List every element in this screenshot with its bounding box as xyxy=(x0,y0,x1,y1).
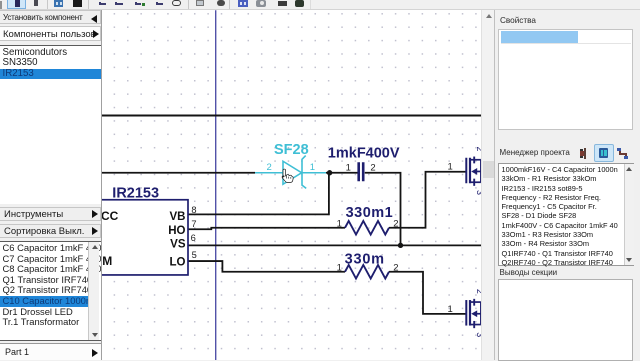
wire diode feed xyxy=(102,171,255,173)
svg-text:2: 2 xyxy=(393,218,398,229)
label Свойства xyxy=(500,16,536,25)
bar: Компоненты пользов xyxy=(0,26,101,42)
wire VS net xyxy=(188,244,481,246)
wire junction to capacitor xyxy=(326,171,358,173)
mouse cursor (hand) xyxy=(282,169,293,182)
R4 pin numbers xyxy=(337,262,399,273)
svg-text:330m: 330m xyxy=(345,251,385,267)
label Выводы секции xyxy=(500,268,558,277)
svg-text:7: 7 xyxy=(191,218,196,228)
node junction at diode-cap xyxy=(327,170,332,175)
icon 2 (selected) xyxy=(594,144,614,162)
canvas vertical scrollbar xyxy=(481,10,495,361)
diode D1 SF28 (selected, cyan) xyxy=(255,155,326,188)
upper list xyxy=(0,45,101,205)
lower list xyxy=(0,241,101,341)
IC pin names xyxy=(168,211,186,268)
IC left pin names (clipped) xyxy=(101,209,119,268)
svg-text:1: 1 xyxy=(310,161,315,172)
wire VB net xyxy=(188,172,329,214)
svg-text:1mkF400V: 1mkF400V xyxy=(328,145,400,161)
wire R3 to Q1 gate xyxy=(389,171,466,227)
cursor guide vertical line xyxy=(215,10,217,361)
wire R4 to Q2 gate xyxy=(389,271,466,313)
svg-text:330m1: 330m1 xyxy=(346,204,394,220)
R3 pin numbers xyxy=(337,218,399,229)
canvas xyxy=(102,10,481,361)
left panel xyxy=(0,10,102,361)
IC pin numbers xyxy=(191,204,197,259)
project manager list xyxy=(498,163,635,266)
svg-text:8: 8 xyxy=(191,204,196,214)
svg-text:2: 2 xyxy=(393,262,398,273)
IC U1 IR2153 body xyxy=(94,199,188,274)
svg-text:2: 2 xyxy=(267,161,272,172)
svg-text:VB: VB xyxy=(170,211,186,223)
icon 1 xyxy=(580,148,589,159)
svg-text:1: 1 xyxy=(448,303,453,314)
label Менеджер проекта xyxy=(500,148,570,157)
pm scrollbar xyxy=(624,164,635,265)
resistor R4 zigzag xyxy=(345,264,389,278)
svg-text:HO: HO xyxy=(168,224,185,236)
svg-text:SF28: SF28 xyxy=(274,141,309,157)
svg-text:VS: VS xyxy=(170,238,186,250)
icon 3 xyxy=(617,148,629,159)
svg-text:M: M xyxy=(102,254,112,268)
Part 1 tab row xyxy=(0,343,101,360)
svg-text:LO: LO xyxy=(170,256,186,268)
transistor Q2 (bottom MOSFET) xyxy=(466,298,481,327)
svg-text:1: 1 xyxy=(337,262,342,273)
capacitor C6 plates xyxy=(357,162,360,181)
svg-text:2: 2 xyxy=(370,162,375,173)
capacitor pin numbers xyxy=(346,162,376,173)
svg-text:1: 1 xyxy=(448,161,453,172)
svg-text:5: 5 xyxy=(192,249,197,259)
list scrollbar xyxy=(88,242,99,340)
wire LO net xyxy=(188,261,345,272)
svg-text:6: 6 xyxy=(191,233,196,243)
svg-text:1: 1 xyxy=(337,218,342,229)
bar: Инструменты xyxy=(0,207,101,222)
properties box xyxy=(498,29,633,131)
bar: Сортировка Выкл. xyxy=(0,224,101,239)
transistor Q1 (top MOSFET) xyxy=(466,156,481,185)
node junction at VS xyxy=(398,242,403,247)
right panel xyxy=(494,10,640,361)
resistor R3 zigzag xyxy=(345,220,389,234)
toolbar strip (cut off at top) xyxy=(0,0,640,10)
bar: Установить компонент xyxy=(0,10,101,24)
wire capacitor to VS xyxy=(365,172,401,245)
bottom box xyxy=(498,279,633,361)
wire top rail xyxy=(102,114,481,116)
wire HO net xyxy=(188,227,345,229)
svg-text:IR2153: IR2153 xyxy=(112,185,159,201)
svg-text:CC: CC xyxy=(102,209,119,223)
diode pin labels xyxy=(267,161,316,172)
svg-text:1: 1 xyxy=(346,162,351,173)
